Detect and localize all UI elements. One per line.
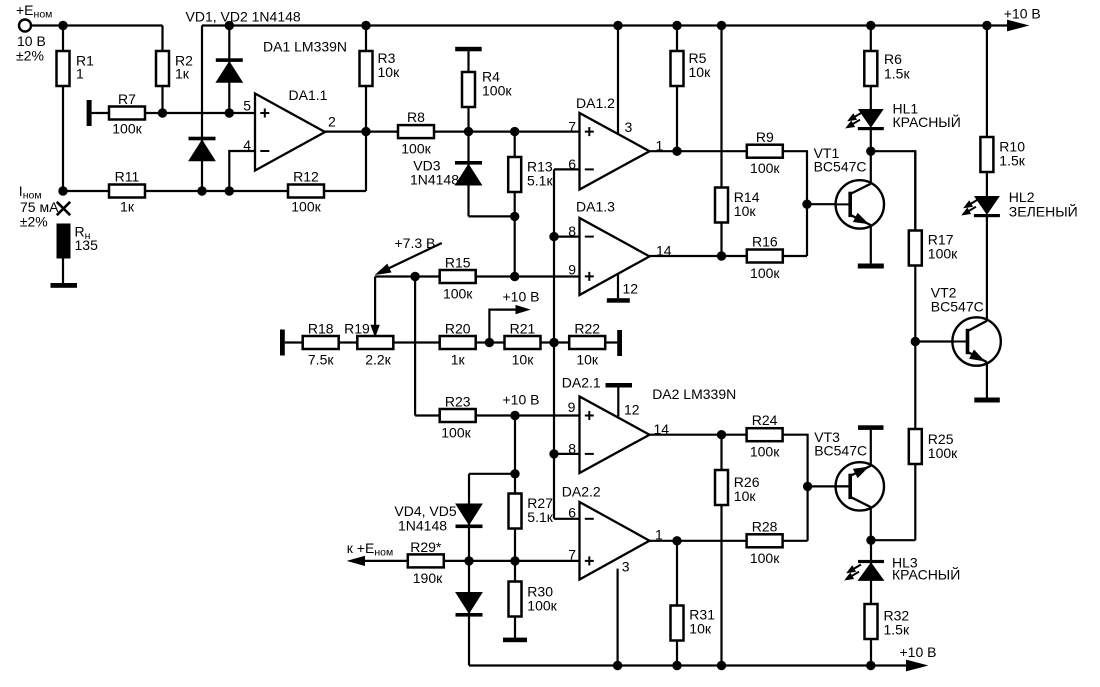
common bar left of R18 (280, 330, 285, 356)
ground VT1 emitter (858, 264, 884, 269)
wire row R15 / pin9 (375, 275, 579, 277)
node R13 top (510, 127, 519, 136)
node R5/pin1 (672, 147, 681, 156)
resistor R9 (747, 145, 783, 158)
svg-text:КРАСНЫЙ: КРАСНЫЙ (893, 113, 961, 130)
node R27/R30/pin7 (510, 556, 519, 565)
svg-text:R20: R20 (445, 321, 471, 337)
node HL1/VT1 (866, 147, 875, 156)
svg-text:100к: 100к (750, 444, 780, 460)
svg-text:3: 3 (625, 119, 633, 135)
ground under Rн (51, 283, 78, 288)
svg-text:100к: 100к (750, 160, 780, 176)
resistor R23 (440, 409, 476, 422)
svg-text:R28: R28 (752, 518, 778, 534)
wire row R23 / pin9 DA2.1 (415, 414, 579, 416)
svg-text:7.5к: 7.5к (308, 352, 334, 368)
LED HL1 (859, 110, 883, 128)
svg-text:DA2.1: DA2.1 (562, 375, 601, 391)
wire VT3 base (808, 485, 848, 487)
resistor R2 (161, 26, 163, 114)
LED HL2 (975, 197, 999, 215)
resistor R10 (986, 26, 988, 198)
ground bar VT3 emitter (858, 425, 884, 430)
wire row pin7 / R29 (362, 560, 580, 562)
svg-text:ЗЕЛЕНЫЙ: ЗЕЛЕНЫЙ (1009, 202, 1078, 219)
resistor R7 (109, 107, 145, 120)
svg-text:10к: 10к (512, 352, 535, 368)
resistor R22 (569, 336, 605, 349)
node R23 junction (510, 411, 519, 420)
pin 12 DA1.3 (617, 274, 619, 298)
wire top +10V rail (202, 24, 1010, 26)
svg-text:100к: 100к (112, 121, 142, 137)
resistor R15 (440, 270, 476, 283)
svg-text:DA1.2: DA1.2 (576, 95, 615, 111)
svg-text:9: 9 (568, 261, 576, 277)
node R13 bottom (510, 212, 519, 221)
svg-text:100к: 100к (401, 141, 431, 157)
arrow +10V top right (1008, 20, 1028, 31)
svg-text:DA2.2: DA2.2 (562, 484, 601, 500)
svg-text:R11: R11 (115, 169, 140, 185)
svg-text:100к: 100к (482, 83, 512, 99)
svg-text:190к: 190к (413, 570, 443, 586)
wire row Iном / R11 (63, 190, 366, 192)
resistor R25 (909, 429, 922, 464)
node R1/R11 (58, 186, 67, 195)
node R26 bottom (717, 661, 726, 670)
resistor R6 (870, 26, 872, 111)
node VD1 top (225, 21, 234, 30)
wire VT1 base (807, 203, 849, 205)
node R14/pin14 (717, 251, 726, 260)
node R31 top (672, 536, 681, 545)
node VT1 base (802, 200, 811, 209)
svg-text:5.1к: 5.1к (527, 173, 553, 189)
wire HL1 node to R17 (871, 151, 916, 230)
svg-text:КРАСНЫЙ: КРАСНЫЙ (892, 565, 960, 582)
svg-text:R9: R9 (756, 129, 774, 145)
transistor VT2 (986, 217, 988, 398)
svg-text:1N4148: 1N4148 (398, 518, 447, 534)
svg-text:R7: R7 (118, 91, 136, 107)
svg-text:1N4148: 1N4148 (410, 172, 459, 188)
arrow +7.3V (380, 243, 442, 273)
diode VD4 (468, 474, 470, 561)
wire VD3 to R13 (469, 215, 515, 217)
wire row R8 (325, 131, 580, 133)
svg-text:R29*: R29* (410, 539, 442, 555)
node VD2 bottom (197, 186, 206, 195)
resistor R4 / diode VD3 (467, 51, 469, 216)
svg-text:+10 В: +10 В (900, 644, 937, 660)
resistor R24 (747, 428, 783, 441)
svg-text:100к: 100к (928, 246, 958, 262)
terminal +Eном (19, 20, 31, 32)
diode VD1 (228, 26, 230, 114)
wire node pin2 riser (365, 26, 367, 192)
common bar above R4 (455, 47, 482, 52)
svg-text:100к: 100к (527, 598, 557, 614)
svg-text:12: 12 (623, 281, 639, 297)
wire pin8 DA2.1 stub (554, 453, 580, 455)
svg-text:+10 В: +10 В (503, 289, 540, 305)
wire top-left +E rail (31, 24, 162, 26)
node VT3 collector (866, 536, 875, 545)
svg-text:1.5к: 1.5к (999, 153, 1025, 169)
svg-text:12: 12 (624, 401, 640, 417)
node VT2 base (911, 337, 920, 346)
svg-text:±2%: ±2% (20, 214, 48, 230)
svg-text:100к: 100к (443, 286, 473, 302)
svg-text:DA1.3: DA1.3 (576, 199, 615, 215)
svg-text:100к: 100к (750, 550, 780, 566)
svg-text:VD1, VD2 1N4148: VD1, VD2 1N4148 (186, 9, 301, 25)
svg-text:R15: R15 (445, 255, 471, 271)
node R1 top (58, 21, 67, 30)
svg-text:DA1 LM339N: DA1 LM339N (263, 39, 347, 55)
svg-text:100к: 100к (441, 425, 471, 441)
ground VT2 emitter (974, 398, 1000, 403)
op-amp DA1.2 (617, 26, 619, 135)
node VT3 base (803, 482, 812, 491)
diode VD5 (468, 561, 470, 666)
break mark X (57, 202, 70, 215)
resistor R16 (747, 250, 783, 263)
svg-text:5.1к: 5.1к (527, 509, 553, 525)
node R13/R15 (510, 272, 519, 281)
resistor R29* (408, 554, 444, 567)
svg-text:DA2 LM339N: DA2 LM339N (652, 386, 736, 402)
svg-text:10к: 10к (734, 203, 757, 219)
resistor R21 (505, 336, 541, 349)
wire pin4 (229, 151, 255, 191)
resistor R11 (109, 185, 145, 198)
wire R25 to VT3 node (871, 539, 915, 541)
resistor R31 (676, 541, 678, 666)
wire row pin14 DA1.3 / R16 (650, 255, 808, 257)
svg-text:1.5к: 1.5к (884, 622, 910, 638)
node R31 bottom (672, 661, 681, 670)
wire pin6 DA2.2 jog (554, 518, 580, 520)
svg-text:10к: 10к (689, 64, 712, 80)
resistor R28 (747, 534, 783, 547)
common bar right of R22 (617, 330, 622, 356)
svg-text:BC547C: BC547C (931, 299, 984, 315)
wire bottom +10V rail (469, 664, 911, 666)
resistor R19 trimmer (357, 336, 393, 349)
op-amp DA1.1 (255, 94, 325, 171)
resistor R17 (914, 151, 916, 540)
svg-text:R16: R16 (752, 234, 778, 250)
resistor R8 (398, 125, 434, 138)
wire row pin14 DA2.1 / R24 (650, 435, 808, 541)
svg-text:+10 В: +10 В (503, 392, 540, 408)
diode VD2 (201, 26, 203, 192)
resistor R27 (509, 494, 522, 529)
node VD5/pin7 (464, 556, 473, 565)
svg-text:2: 2 (328, 113, 336, 129)
svg-text:1к: 1к (175, 66, 190, 82)
resistor R3 (360, 51, 373, 86)
svg-text:9: 9 (568, 399, 576, 415)
svg-text:10к: 10к (734, 488, 757, 504)
svg-text:7: 7 (568, 118, 576, 134)
wire minus net vertical (553, 169, 555, 518)
LED HL3 (870, 540, 872, 665)
common bar at R7 (87, 100, 92, 126)
resistor R13 (514, 132, 516, 277)
transistor VT3 (870, 430, 872, 540)
svg-text:2.2к: 2.2к (365, 352, 391, 368)
svg-text:+10 В: +10 В (1004, 6, 1041, 22)
wire riser R23node to VD4/R27 (514, 416, 516, 561)
wiper arrow R19 (374, 277, 376, 327)
node R5 top (672, 21, 681, 30)
svg-text:1.5к: 1.5к (884, 66, 910, 82)
transistor VT1 (870, 130, 872, 264)
ground under R30 (503, 638, 527, 643)
node R26 top (717, 430, 726, 439)
svg-text:100к: 100к (928, 445, 958, 461)
wire pin6 stub (554, 168, 580, 170)
resistor Rн load (57, 224, 71, 259)
svg-text:10к: 10к (576, 352, 599, 368)
svg-text:135: 135 (75, 237, 99, 253)
node R6 top (866, 21, 875, 30)
resistor R26 (720, 435, 722, 666)
svg-text:6: 6 (568, 505, 576, 521)
resistor R12 (288, 185, 324, 198)
wire VT2 base (915, 340, 963, 342)
node R20/R21 +10V arrow (485, 338, 494, 347)
wire pin8 DA1.3 stub (554, 236, 580, 238)
svg-text:±2%: ±2% (16, 48, 44, 64)
wire row pin1 DA2.2 / R28 (650, 540, 808, 542)
svg-text:R12: R12 (293, 169, 319, 185)
resistor R5 (676, 26, 678, 152)
svg-text:100к: 100к (291, 199, 321, 215)
op-amp DA1.3 (580, 218, 650, 295)
svg-text:R18: R18 (308, 321, 334, 337)
svg-text:+7.3 В: +7.3 В (395, 235, 436, 251)
svg-text:1к: 1к (451, 352, 466, 368)
svg-text:3: 3 (622, 559, 630, 575)
svg-text:R21: R21 (510, 321, 536, 337)
svg-text:10к: 10к (689, 621, 712, 637)
wire riser R15node to R23 (414, 277, 416, 416)
op-amp DA2.2 (580, 502, 650, 580)
wire row pin5 (92, 112, 255, 114)
node R2/R7 (158, 108, 167, 117)
svg-text:100к: 100к (750, 265, 780, 281)
svg-text:1: 1 (76, 66, 84, 82)
svg-text:10к: 10к (378, 64, 401, 80)
wire row pin1 DA1.2 / R9 (650, 151, 808, 256)
svg-text:R22: R22 (574, 321, 600, 337)
resistor R30 (514, 561, 516, 638)
resistor R20 (440, 336, 476, 349)
resistor R32 (865, 604, 878, 639)
svg-text:BC547C: BC547C (814, 159, 867, 175)
svg-text:R23: R23 (445, 394, 471, 410)
arrow +10V bottom (907, 660, 927, 671)
svg-text:DA1.1: DA1.1 (289, 87, 328, 103)
node R32 bottom (866, 661, 875, 670)
svg-text:5: 5 (243, 98, 251, 114)
arrow to +Eном (349, 556, 365, 565)
svg-text:R19: R19 (344, 321, 370, 337)
node pin3 DA2.2 bottom (613, 661, 622, 670)
svg-text:R24: R24 (752, 412, 778, 428)
node R14 top (717, 21, 726, 30)
wire VD4 branch (469, 473, 515, 475)
svg-text:1к: 1к (120, 199, 135, 215)
node R10 top (982, 21, 991, 30)
pin 12 DA2.1 (606, 383, 633, 388)
op-amp DA2.1 (580, 397, 650, 474)
wire row R18-R22 (285, 341, 617, 343)
resistor R14 (720, 26, 722, 257)
node VD1 bottom (225, 108, 234, 117)
resistor R18 (303, 336, 339, 349)
svg-text:BC547C: BC547C (814, 443, 867, 459)
node pin4/R11 (225, 186, 234, 195)
node R21/R22 (549, 338, 558, 347)
pin 3 DA2.2 (616, 569, 618, 666)
svg-text:8: 8 (568, 223, 576, 239)
svg-text:R8: R8 (407, 109, 425, 125)
resistor R1 (62, 26, 64, 192)
